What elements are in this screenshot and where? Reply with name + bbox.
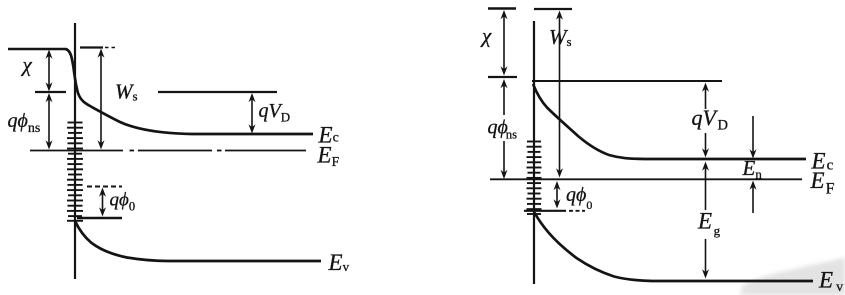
E_v surface tick (77, 217, 122, 219)
interface vertical line (right) (533, 21, 535, 284)
svg-text:qϕ0: qϕ0 (110, 190, 136, 214)
valence band curve E_v (right) (535, 213, 814, 282)
svg-text:qϕns: qϕns (488, 117, 518, 142)
qV_D reference line (158, 91, 277, 93)
q phi 0 arrow (right) (556, 184, 558, 207)
svg-text:qϕns: qϕns (8, 110, 41, 136)
E_n upper arrow (752, 116, 754, 155)
semiconductor surface vacuum level segment (dotted right part) (80, 46, 103, 48)
W_s arrow (100, 51, 102, 147)
qV_D arrow (right, label gap) (705, 85, 707, 109)
chi top tick (488, 7, 516, 9)
E_g arrow (label gap) (705, 164, 707, 210)
svg-text:qϕ0: qϕ0 (566, 184, 592, 212)
neutral level tick (right) (524, 210, 566, 212)
E_F dash-dot line (30, 150, 123, 152)
q phi 0 neutral-level dashed tick (87, 186, 122, 188)
E_n lower arrow (752, 184, 754, 214)
valence band curve E_v (left) (75, 221, 321, 261)
svg-text:Ws: Ws (549, 25, 572, 49)
svg-text:qVD: qVD (692, 105, 728, 134)
page shadow bottom right (740, 258, 845, 295)
conduction band curve E_c (left) (66, 49, 314, 134)
chi arrow (48, 52, 50, 89)
metal vacuum level line (left) (8, 48, 66, 50)
E_c surface tick (35, 91, 66, 93)
svg-text:Ws: Ws (115, 80, 138, 104)
svg-text:qVD: qVD (259, 100, 291, 125)
W_s arrow (right) (559, 13, 561, 175)
surface-state hatch marks (67, 123, 83, 221)
interface vertical line (74, 23, 76, 279)
E_F line (right) (490, 178, 802, 180)
chi bottom tick (488, 76, 517, 78)
q phi ns arrow (right, with label gap) (503, 82, 505, 116)
q phi ns arrow (48, 96, 50, 148)
svg-text:Ev: Ev (328, 250, 350, 275)
qV_D reference line (right) (532, 80, 722, 82)
surface-state hatch marks (right) (527, 142, 542, 215)
chi arrow (right) (503, 13, 505, 74)
svg-text:χ: χ (21, 53, 33, 77)
W_s top tick (534, 8, 572, 10)
svg-text:Eg: Eg (697, 209, 721, 239)
svg-text:EF: EF (317, 143, 340, 170)
q phi 0 arrow (102, 190, 104, 214)
svg-text:χ: χ (480, 24, 492, 48)
conduction band curve E_c (right) (533, 84, 806, 159)
qV_D arrow (251, 96, 253, 131)
